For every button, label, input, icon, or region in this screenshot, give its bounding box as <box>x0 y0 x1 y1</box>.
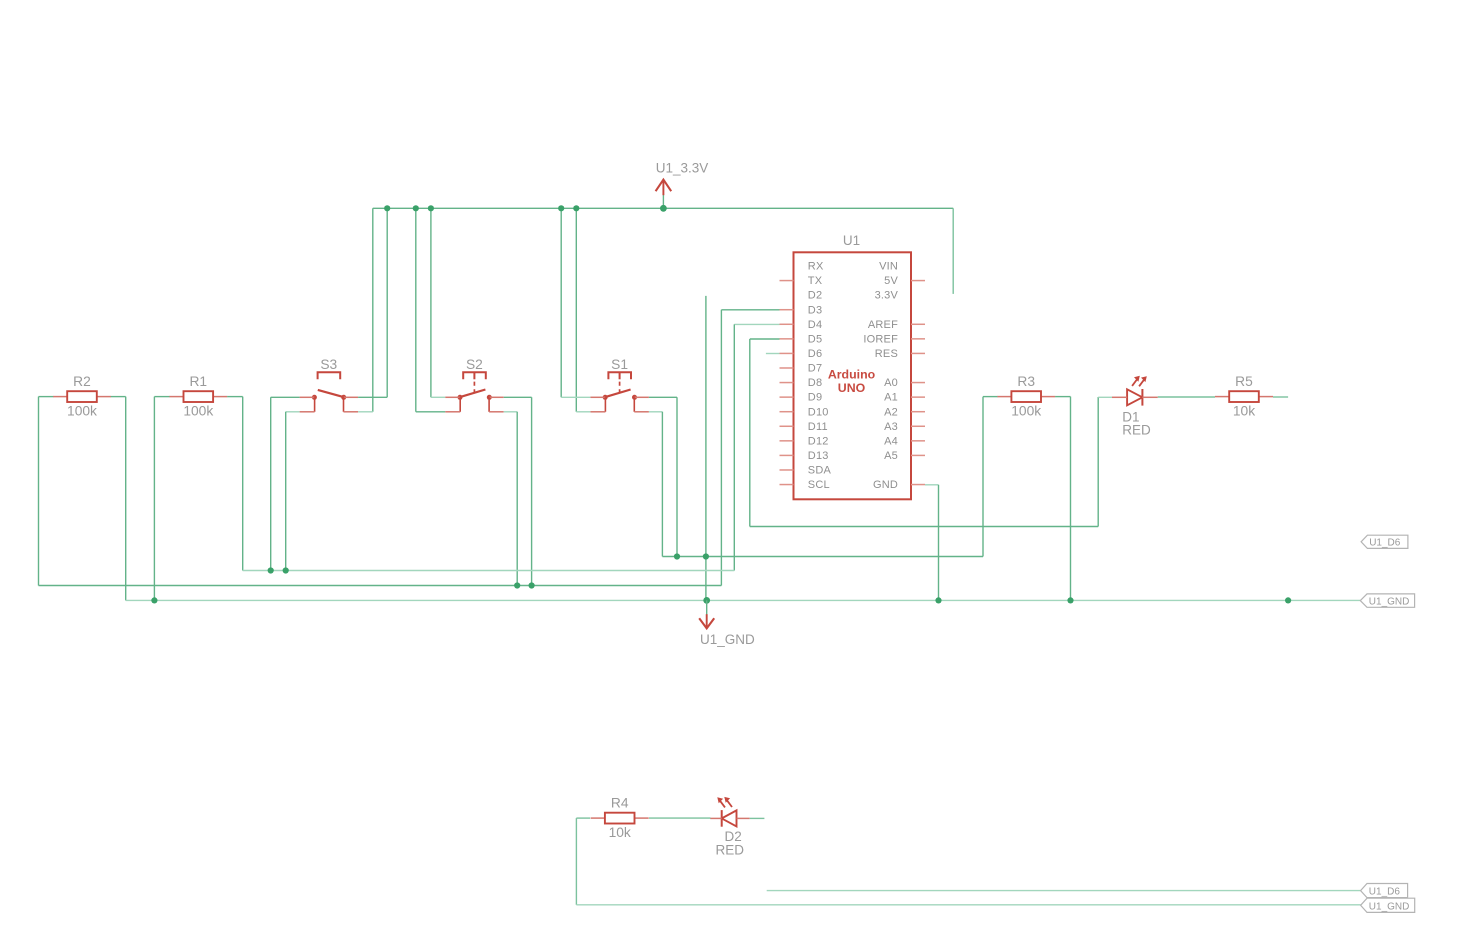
U1 left pin stubs <box>780 281 794 485</box>
wire D5 riser down <box>749 339 751 527</box>
wire bottom D6 run <box>767 890 1361 892</box>
svg-text:SCL: SCL <box>808 479 830 491</box>
svg-text:100k: 100k <box>67 404 97 419</box>
svg-text:A1: A1 <box>884 392 898 404</box>
wire S1 upper-left <box>561 396 590 398</box>
svg-text:A2: A2 <box>884 406 898 418</box>
wire net D4 horizontal <box>243 570 735 572</box>
wire S3 upper-right <box>358 396 387 398</box>
IC U1 Arduino UNO <box>794 233 912 499</box>
wire D4 riser down <box>733 324 735 570</box>
svg-text:RED: RED <box>716 842 745 857</box>
wire R2 left <box>39 396 54 398</box>
wire R1 left <box>154 396 169 398</box>
wire S3 lower-left drop <box>285 412 287 571</box>
wire R3 right <box>1055 396 1070 398</box>
svg-text:RED: RED <box>1122 423 1151 438</box>
junction dots on D6 net <box>674 553 680 559</box>
svg-text:D12: D12 <box>808 435 829 447</box>
wire D1 to R5 <box>1158 396 1215 398</box>
svg-text:D5: D5 <box>808 333 822 345</box>
svg-text:100k: 100k <box>183 404 213 419</box>
svg-text:R5: R5 <box>1235 374 1253 389</box>
svg-text:A5: A5 <box>884 450 898 462</box>
svg-text:GND: GND <box>873 479 898 491</box>
wire S1 lower-right <box>649 411 663 413</box>
wire R5 right hanging <box>1273 396 1288 398</box>
wire S2 upper-left riser <box>430 208 432 397</box>
wire R2 right <box>111 396 126 398</box>
wire D2 right hanging <box>750 817 765 819</box>
wire net D6 horizontal <box>662 556 983 558</box>
wire R4 to D2 <box>649 817 711 819</box>
wire R2 left drop <box>38 397 40 586</box>
svg-text:D4: D4 <box>808 319 822 331</box>
svg-text:S1: S1 <box>611 357 628 372</box>
wire R1 right <box>227 396 243 398</box>
svg-text:3.3V: 3.3V <box>875 290 899 302</box>
junction dots on D4 net <box>268 567 274 573</box>
wire S2 upper-right <box>504 396 532 398</box>
svg-text:A3: A3 <box>884 421 898 433</box>
svg-text:U1_GND: U1_GND <box>1369 596 1410 607</box>
svg-text:D6: D6 <box>808 348 822 360</box>
net flag U1_D6 right <box>1361 535 1408 548</box>
svg-text:Arduino: Arduino <box>828 368 876 382</box>
svg-text:U1_D6: U1_D6 <box>1369 887 1401 898</box>
svg-text:R4: R4 <box>611 796 629 811</box>
svg-text:RES: RES <box>875 348 898 360</box>
svg-text:D9: D9 <box>808 392 822 404</box>
resistor R2 <box>53 374 111 418</box>
wire D5 to D1 anode <box>1098 396 1112 398</box>
net flag U1_GND bottom <box>1361 898 1415 912</box>
U1 right pin stubs <box>911 281 925 485</box>
switch S3 <box>300 357 359 412</box>
LED D1 <box>1112 376 1158 406</box>
wire R2 right drop <box>125 397 127 601</box>
svg-text:10k: 10k <box>609 825 631 840</box>
svg-text:U1_D6: U1_D6 <box>1369 538 1401 549</box>
svg-text:S3: S3 <box>320 357 337 372</box>
LED D2 <box>710 797 750 827</box>
wire S3 upper-right riser <box>386 208 388 397</box>
wire D5 riser up to D1 <box>1097 397 1099 527</box>
wire 3.3V hanging drop to U1 pin area <box>952 208 954 294</box>
wire R1 left drop <box>153 397 155 601</box>
svg-text:D7: D7 <box>808 363 822 375</box>
svg-text:R3: R3 <box>1017 374 1035 389</box>
wire S2 upper-right drop <box>531 397 533 585</box>
wire R3 right drop <box>1070 397 1072 601</box>
wire D6 stub at pin <box>766 353 780 355</box>
svg-text:5V: 5V <box>884 275 898 287</box>
resistor R3 <box>997 374 1055 418</box>
svg-text:D13: D13 <box>808 450 829 462</box>
wire GND pin <box>925 484 939 486</box>
wire S3 upper-left <box>271 396 300 398</box>
wire S3 lower-left <box>286 411 300 413</box>
wire S1 lower-left riser <box>575 208 577 411</box>
wire S2 lower-left riser <box>415 208 417 411</box>
net flag U1_D6 bottom <box>1361 884 1408 898</box>
wire D4 pin to riser <box>734 323 779 325</box>
svg-text:U1_3.3V: U1_3.3V <box>656 160 709 175</box>
resistor R1 <box>169 374 227 418</box>
wire R4 left drop <box>575 818 577 905</box>
svg-text:UNO: UNO <box>838 381 866 395</box>
svg-text:D8: D8 <box>808 377 822 389</box>
wire R1 right drop <box>242 397 244 571</box>
junction dots on D3 net <box>514 582 520 588</box>
wire S1 lower-left <box>576 411 590 413</box>
wire GND pin riser down <box>938 485 940 601</box>
wire net D3 horizontal <box>39 585 722 587</box>
wire GND bus <box>126 599 1361 601</box>
junction dot power <box>660 205 667 212</box>
wire R3 left <box>983 396 997 398</box>
svg-text:S2: S2 <box>466 357 483 372</box>
wire D5 pin to riser <box>750 338 780 340</box>
wire bus left corner down to S3 lower-right <box>372 208 374 411</box>
resistor R4 <box>591 796 649 840</box>
svg-text:R2: R2 <box>73 374 91 389</box>
svg-text:VIN: VIN <box>879 261 898 273</box>
svg-text:D11: D11 <box>808 421 828 433</box>
svg-text:D2: D2 <box>808 290 822 302</box>
svg-text:A4: A4 <box>884 435 898 447</box>
svg-text:D10: D10 <box>808 406 829 418</box>
wire D5 horizontal run <box>750 526 1098 528</box>
junction dots on GND bus <box>151 597 157 603</box>
svg-text:10k: 10k <box>1233 404 1255 419</box>
svg-text:RX: RX <box>808 261 824 273</box>
svg-text:100k: 100k <box>1011 404 1041 419</box>
wire D3 pin to riser <box>721 309 779 311</box>
wire S1 upper-right <box>649 396 677 398</box>
svg-text:U1_GND: U1_GND <box>1369 901 1410 912</box>
resistor R5 <box>1215 374 1273 418</box>
svg-text:A0: A0 <box>884 377 898 389</box>
switch S1 <box>590 357 649 412</box>
wire 3.3V top bus <box>373 207 953 209</box>
svg-text:AREF: AREF <box>868 319 898 331</box>
wire S3 upper-left drop <box>270 397 272 570</box>
wire S2 lower-right drop <box>516 412 518 586</box>
junction dots on top bus <box>384 205 390 211</box>
svg-text:IOREF: IOREF <box>863 333 898 345</box>
wire S1 upper-right drop <box>676 397 678 556</box>
svg-text:U1_GND: U1_GND <box>700 632 755 647</box>
wire D3 riser down <box>720 310 722 586</box>
wire S3 lower-right <box>358 411 373 413</box>
wire S1 lower-right drop <box>661 412 663 557</box>
svg-text:D3: D3 <box>808 304 822 316</box>
wire S2 lower-right <box>504 411 518 413</box>
svg-text:U1: U1 <box>843 233 860 248</box>
wire hanging vertical node to ground <box>705 296 707 601</box>
wire S2 lower-left <box>416 411 445 413</box>
wire S1 upper-left riser <box>560 208 562 397</box>
switch S2 <box>445 357 504 412</box>
svg-text:SDA: SDA <box>808 465 832 477</box>
wire S2 upper-left <box>431 396 445 398</box>
wire R3 left drop <box>982 397 984 557</box>
svg-text:TX: TX <box>808 275 823 287</box>
net flag U1_GND right <box>1360 594 1414 608</box>
wire R4 left <box>576 817 590 819</box>
svg-text:R1: R1 <box>189 374 207 389</box>
ground symbol U1_GND <box>699 600 755 647</box>
power symbol U1_3.3V <box>656 160 709 208</box>
wire bottom GND run <box>576 904 1360 906</box>
